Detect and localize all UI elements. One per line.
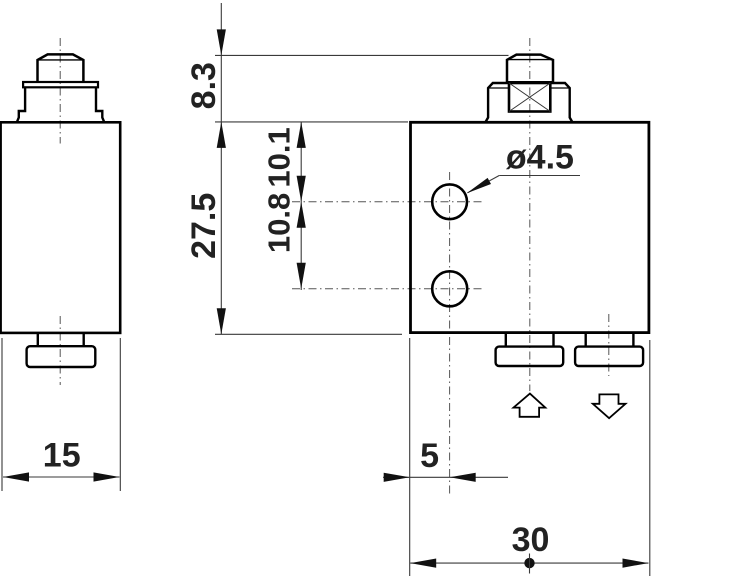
centerline left view top (cap axis) [59,38,61,144]
centerline holes vertical [449,172,451,497]
left view body [1,122,121,333]
svg-text:27.5: 27.5 [185,193,223,259]
svg-text:10.1: 10.1 [262,127,297,187]
right view port 2 stem [586,333,634,347]
right view breather square [509,83,550,112]
dimension 10.1 / 10.8 vertical line [297,122,306,290]
svg-text:10.8: 10.8 [262,193,297,253]
svg-text:5: 5 [420,437,439,475]
left view port nub [27,346,96,367]
svg-text:15: 15 [43,437,81,475]
svg-text:30: 30 [512,521,550,559]
svg-text:ø4.5: ø4.5 [506,138,574,176]
right view body [411,122,649,332]
right view port 2 nub [575,347,643,366]
dimension 8.3 / 27.5 vertical line [215,3,509,335]
dimension 30 [410,338,650,576]
centerline right port axis [608,314,610,376]
centerline right view main axis [529,38,531,391]
centerline lower hole horizontal [292,288,482,290]
hole upper ø4.5 [432,184,467,219]
right view cap (bolt head) [507,55,553,83]
dimension 5 [383,473,508,482]
centerline upper hole horizontal [292,201,482,203]
hole lower [432,271,467,306]
flow arrow down (outlet) [593,394,626,418]
centerline left view bottom (port axis) [59,316,61,385]
right view flange [485,83,572,122]
flow arrow up (inlet) [514,394,546,417]
left view port stem [38,333,84,346]
svg-text:8.3: 8.3 [185,62,223,109]
right view port 1 stem [506,333,554,347]
dimension 15 [2,338,120,491]
left view cap (bolt head) [38,54,84,81]
left view flange band [23,82,98,87]
label ø4.5 leader [467,176,581,194]
left view flange [17,87,105,122]
right view port 1 nub [496,347,564,366]
